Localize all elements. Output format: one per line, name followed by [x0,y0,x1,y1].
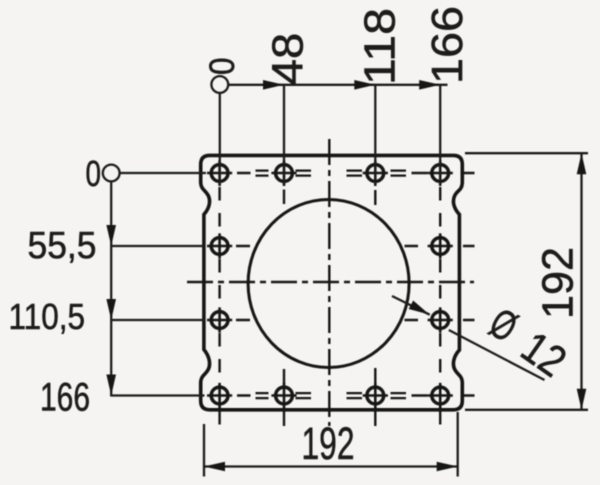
right dimension extension line top [465,152,588,154]
arrow left (bottom 192 dimension) [204,462,225,472]
arrow at 55,5 extension [106,225,116,246]
top extension line at x=284 [283,85,285,186]
arrow at 118 extension [354,80,375,90]
bolt column centerline x=375.3 [374,190,376,426]
left extension line y=246 [111,245,204,247]
bolt row centerline y=320 [236,319,475,321]
top row centerline dashes y=173 [237,172,475,174]
svg-text:110,5: 110,5 [9,296,86,337]
leader line to hole C4 (Ø12) [392,296,545,380]
svg-text:118: 118 [356,8,405,85]
flange plate outline [201,155,463,409]
bolt row centerline y=246 [236,245,475,247]
bottom row hole D4 (Ø12 position symbol) [428,383,453,408]
horizontal main centerline [187,281,474,283]
top row hole A3 (Ø12 position symbol) [363,160,388,185]
arrow at 48 extension [263,80,284,90]
top row hole A4 (Ø12 position symbol) [428,160,453,185]
vertical main centerline [328,139,330,426]
svg-text:55,5: 55,5 [28,225,97,267]
top dimension line [228,84,447,86]
arrow at 166 extension (left) [106,375,116,396]
right hole B4 (Ø12 position symbol) [428,233,453,258]
bottom row hole D1 (Ø12 position symbol) [207,383,232,408]
arrow at 110,5 extension [106,299,116,320]
left dimension line [110,181,112,396]
top row hole A2 (Ø12 position symbol) [271,160,296,185]
top dimension origin circle (datum 0) [211,76,228,93]
svg-text:48: 48 [264,33,313,86]
right hole C4 (Ø12 position symbol) [428,307,453,332]
left extension line y=320 [111,319,204,321]
bolt column centerline x=219.6 [218,187,220,426]
svg-text:0: 0 [203,58,242,76]
bottom dimension extension line left [203,424,205,477]
top row hole A1 (Ø12 position symbol) [207,160,232,185]
left dimension origin circle (datum 0) [103,165,120,182]
bottom dimension extension line right [457,412,459,477]
bolt column centerline x=440.2 [439,187,441,426]
leader arrowhead at hole C4 [409,301,432,319]
bottom row hole D2 (Ø12 position symbol) [271,383,296,408]
bolt column centerline x=284 [283,190,285,427]
svg-text:192: 192 [302,418,355,469]
top extension line at x=375.3 [374,85,376,186]
arrow down (right 192 dimension) [577,389,587,410]
top row double-dash marks y=173 [256,171,407,176]
svg-text:166: 166 [40,375,90,419]
top extension line at x=440.2 [439,85,441,186]
left hole B1 (Ø12 position symbol) [207,233,232,258]
left extension line y=173 (datum row) [120,172,206,174]
bottom dimension line (192) [204,465,458,467]
right dimension line (192) [580,153,582,410]
central bore circle [248,200,409,368]
svg-text:166: 166 [423,6,472,84]
bottom row double-dash marks y=395.5 [256,393,407,398]
top extension line at x=219.8 (datum) [219,93,221,186]
svg-text:192: 192 [534,247,583,319]
arrow at 166 extension [419,80,440,90]
bottom row hole D3 (Ø12 position symbol) [363,383,388,408]
arrow right (bottom 192 dimension) [437,462,458,472]
left extension line y=395.5 [111,394,204,396]
right dimension extension line bottom [465,409,588,411]
arrow up (right 192 dimension) [577,153,587,174]
svg-text:0: 0 [86,153,102,194]
bottom row centerline dashes y=395.5 [237,394,475,396]
left hole C1 (Ø12 position symbol) [207,307,232,332]
